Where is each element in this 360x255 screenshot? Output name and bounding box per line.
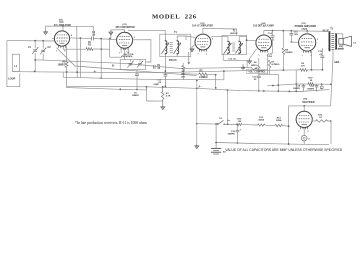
wire R7 bottom <box>259 68 279 74</box>
svg-text:470: 470 <box>301 65 305 68</box>
node rail to R10 <box>330 120 332 122</box>
label speaker <box>338 46 344 51</box>
wire V1 pin to R1 <box>66 46 68 60</box>
wire V2 grid top rail <box>128 30 165 34</box>
label S1 <box>219 118 222 120</box>
svg-text:1: 1 <box>301 55 302 57</box>
label T3 <box>330 28 333 30</box>
label C10 <box>157 79 162 84</box>
svg-text:2: 2 <box>307 131 308 133</box>
wire V5 cathode <box>311 51 313 70</box>
label V6 function <box>302 102 314 104</box>
wire R9 row <box>296 69 322 71</box>
T2 core <box>232 43 235 51</box>
output transformer T3 primary <box>329 32 330 51</box>
svg-text:45MA: 45MA <box>258 119 264 122</box>
tube V6 rectifier <box>296 111 312 129</box>
T2 primary winding <box>228 41 230 53</box>
wire V1 grid-cap to ground <box>46 26 54 29</box>
wire V2 pin to osc coil <box>120 49 122 53</box>
node rail C <box>119 86 297 93</box>
battery B1 <box>211 148 221 154</box>
label R6 <box>251 62 258 67</box>
wire R8 bottom <box>283 55 285 71</box>
label C19 <box>318 51 323 56</box>
loop antenna L1 outer <box>7 41 20 87</box>
resistor R11 <box>308 83 314 86</box>
label V3 <box>200 23 204 25</box>
label L1 <box>14 65 17 68</box>
T1 primary slug arrow <box>162 43 170 54</box>
label R1 <box>58 62 67 67</box>
svg-text:455 KC: 455 KC <box>169 59 177 62</box>
wire rail C lower stub <box>67 87 147 90</box>
label C13 <box>268 54 273 58</box>
wire rail A (loop bottom) <box>12 70 296 73</box>
svg-text:1: 1 <box>206 54 207 56</box>
label C16 <box>228 131 236 136</box>
wire row right <box>242 124 258 126</box>
variable capacitor C3 <box>127 61 133 68</box>
svg-text:.05MF: .05MF <box>153 84 160 86</box>
T2 secondary winding <box>239 41 241 53</box>
tube V4 <box>256 35 272 53</box>
svg-text:B−: B− <box>112 66 116 68</box>
wire rail C (A- bus) <box>67 86 330 91</box>
svg-text:50MFD: 50MFD <box>307 88 314 90</box>
svg-text:(V4): (V4) <box>261 22 265 25</box>
speaker LS1 <box>339 36 352 46</box>
wire V1 to R2 <box>63 48 86 49</box>
label C8 <box>132 92 140 97</box>
wire R5 drop <box>215 74 217 88</box>
wire grid cap down to V1 <box>62 26 64 31</box>
label C1 <box>28 46 32 49</box>
T1 wires <box>165 34 186 56</box>
resistor R5 <box>199 73 208 76</box>
wire R3 to ground <box>162 99 164 104</box>
svg-text:BLUE: BLUE <box>323 30 330 32</box>
label R5 <box>200 71 204 73</box>
wire T3 sec bottom <box>337 44 343 49</box>
oscillator tuning box <box>120 60 146 70</box>
label R5 value <box>199 77 208 79</box>
wire R8 top <box>282 31 284 48</box>
svg-text:R1: R1 <box>62 62 66 64</box>
label V2 <box>122 24 126 26</box>
node top rail d <box>306 30 308 32</box>
svg-text:.005: .005 <box>294 34 299 36</box>
wire vertical bus b <box>79 38 81 78</box>
wire C14 drop <box>272 31 274 36</box>
svg-text:10MEG: 10MEG <box>285 52 293 54</box>
label V5 <box>301 23 305 25</box>
wire C8 to rail <box>136 76 138 91</box>
svg-text:S1: S1 <box>219 118 222 120</box>
variable capacitor C2 <box>40 41 46 60</box>
svg-text:1: 1 <box>258 55 259 57</box>
svg-text:.05: .05 <box>253 79 257 81</box>
ground at V1 grid return <box>44 30 48 35</box>
wire V5 plate up <box>306 31 308 34</box>
label B1 <box>223 151 227 153</box>
wire switch to resistor <box>224 123 236 125</box>
label C4 <box>92 31 96 37</box>
wire V3 to ground <box>192 45 195 47</box>
svg-text:LOOP: LOOP <box>8 77 16 81</box>
resistor R8 <box>282 48 285 55</box>
label V3 function <box>192 25 213 28</box>
svg-text:C4: C4 <box>92 31 96 34</box>
resistor R1 <box>65 60 68 67</box>
T1 secondary winding <box>177 41 179 54</box>
wire C4 feed <box>46 26 94 36</box>
resistor R10 <box>316 120 328 123</box>
ground at V2 top <box>109 30 113 39</box>
svg-text:1K: 1K <box>319 117 322 119</box>
node top rail b <box>282 30 284 32</box>
svg-text:250: 250 <box>268 56 272 58</box>
wire C19 down <box>321 58 323 70</box>
svg-text:+: + <box>240 129 242 132</box>
wire screen drop <box>100 39 102 79</box>
svg-text:(V1): (V1) <box>59 19 63 21</box>
node V1 top rail <box>62 25 64 27</box>
label C2 <box>48 46 52 49</box>
ground at R3 <box>161 105 165 110</box>
svg-text:25MFD: 25MFD <box>228 134 236 136</box>
pin numbers V4 <box>258 40 273 57</box>
wire V4 top <box>263 31 265 36</box>
wire row end <box>283 125 289 128</box>
node PS left <box>288 125 290 145</box>
capacitor C14 <box>271 36 275 38</box>
wire audio right <box>277 74 279 92</box>
T2 secondary slug arrow <box>235 43 242 53</box>
node AVC left <box>34 59 36 61</box>
wire V4 to ground <box>250 49 257 59</box>
wire loop to V1 grid <box>7 40 55 42</box>
svg-text:VALUE OF ALL CAPACITORS ARE MM: VALUE OF ALL CAPACITORS ARE MMF UNLESS O… <box>225 148 343 152</box>
wire battery bus <box>216 143 329 145</box>
wire R3 net <box>147 86 164 101</box>
wire switch row <box>197 123 218 125</box>
label R3 <box>166 93 171 98</box>
capacitor C8 <box>135 74 139 76</box>
inductor L3 osc coil <box>122 56 132 57</box>
wire lamp to bus <box>303 141 305 144</box>
svg-text:POWER AMPLIFIER: POWER AMPLIFIER <box>295 25 317 28</box>
resistor R12 <box>237 123 242 125</box>
wire C19 drop <box>321 48 323 56</box>
svg-text:1U5 DET.&A.F.AMP.: 1U5 DET.&A.F.AMP. <box>253 25 274 28</box>
label C15 <box>294 32 299 37</box>
resistor R3 <box>161 92 164 100</box>
svg-text:LS: LS <box>353 42 356 44</box>
node top rail c <box>290 30 292 32</box>
pot wiper arrow <box>253 68 257 70</box>
svg-text:C2: C2 <box>48 46 52 49</box>
svg-text:A−: A− <box>198 86 202 89</box>
wire R1 to rail <box>66 68 68 88</box>
resistor R14 <box>275 124 283 126</box>
tube V1 <box>54 31 69 48</box>
capacitor C16 electrolytic <box>236 129 242 132</box>
wire L3 left <box>110 49 122 57</box>
svg-text:4: 4 <box>71 34 73 37</box>
wire C15 to V5 <box>284 41 299 44</box>
T1 primary winding <box>165 41 167 54</box>
wire pot bottom <box>258 72 260 77</box>
wire bias row left <box>267 84 296 86</box>
svg-text:1U4: 1U4 <box>59 21 64 24</box>
node R9 <box>311 69 324 71</box>
svg-text:7: 7 <box>197 54 198 56</box>
wire T2 bottom row <box>223 53 247 67</box>
svg-text:50MFD: 50MFD <box>293 88 300 90</box>
tube V2 <box>117 32 133 50</box>
node bias <box>321 83 323 85</box>
wire B+ top rail <box>264 30 330 33</box>
svg-text:C14: C14 <box>268 32 273 35</box>
capacitor C9 <box>154 65 156 69</box>
svg-text:1: 1 <box>56 51 57 53</box>
wire V1 plate to C4 <box>70 37 92 40</box>
label C12b <box>228 58 236 60</box>
pin numbers V6 <box>298 131 308 133</box>
svg-text:(3Q4): (3Q4) <box>302 27 308 30</box>
capacitor C17 electrolytic <box>315 84 319 92</box>
pilot lamp PL1 <box>301 135 307 141</box>
svg-text:A&B−: A&B− <box>334 61 341 64</box>
wire AVC drop w arrow <box>188 52 191 65</box>
label B minus <box>93 66 202 89</box>
T2 primary slug arrow <box>224 43 231 53</box>
label R7 <box>271 62 279 67</box>
capacitor C11 <box>241 64 245 71</box>
label bypass <box>153 84 160 86</box>
label PL1 <box>308 138 310 140</box>
svg-text:3: 3 <box>317 39 318 41</box>
label C14 <box>268 32 273 35</box>
wire V2 top to ground <box>111 30 125 33</box>
node T2 out <box>246 39 248 41</box>
svg-text:3: 3 <box>134 37 135 39</box>
svg-text:1U4 I.F. AMPLIFIER: 1U4 I.F. AMPLIFIER <box>192 25 213 28</box>
wire R2 to osc section <box>93 38 110 49</box>
label T1 <box>174 31 177 34</box>
svg-text:.05: .05 <box>157 68 161 70</box>
svg-text:T1: T1 <box>174 31 177 34</box>
wire V6 to lamp <box>303 128 305 136</box>
wire V1 cathode diagonal <box>56 48 196 76</box>
label R8 <box>285 49 293 54</box>
label LS1 <box>353 42 356 44</box>
label V1 type <box>59 21 64 24</box>
wire rail drop to row <box>227 90 229 124</box>
label C12 <box>252 76 257 81</box>
variable capacitor C1 <box>32 41 38 72</box>
label VOL CONTROL <box>247 69 268 73</box>
svg-text:MODEL 226: MODEL 226 <box>152 13 197 20</box>
wire R10 left <box>312 119 315 121</box>
wire V1 grid stub <box>52 38 55 40</box>
pin numbers V2 <box>119 37 135 54</box>
label R2 <box>88 42 92 46</box>
label A BAT <box>227 119 231 122</box>
wire rail B riser <box>196 70 225 81</box>
wire battery drop <box>215 124 217 148</box>
ground chassis at battery <box>195 144 199 149</box>
node on top wire <box>34 40 44 42</box>
T1 core <box>170 43 173 53</box>
wire chassis drop <box>196 123 198 144</box>
svg-text:*In late production receivers,: *In late production receivers, R-11 is 1… <box>75 121 148 126</box>
pin numbers V1 <box>56 34 73 52</box>
wire T3 top <box>329 30 331 33</box>
label V4 <box>261 22 265 25</box>
tube V3 <box>195 34 211 52</box>
wire V3 top rail <box>203 28 237 35</box>
resistor R13 <box>258 124 266 126</box>
svg-text:5: 5 <box>64 51 65 53</box>
capacitor C15 <box>289 31 293 42</box>
note late production <box>75 121 148 126</box>
ground at detector <box>248 59 252 64</box>
label R11 <box>308 78 313 83</box>
svg-text:6: 6 <box>273 40 274 42</box>
label R9 <box>301 63 305 68</box>
label T1 frequency <box>169 59 177 62</box>
label V5 type <box>302 27 308 30</box>
label C18 <box>293 85 301 89</box>
wire T1 primary return <box>165 57 167 72</box>
tube V5 <box>299 34 316 53</box>
IF transformer T1 box <box>160 34 191 56</box>
svg-text:2: 2 <box>308 138 310 140</box>
wire AVC bus <box>35 60 244 69</box>
node PS top <box>303 105 305 107</box>
wire V2 plate to T1 <box>133 40 151 62</box>
node battery top <box>215 123 228 125</box>
wire C4 to V2 <box>94 39 117 40</box>
svg-text:1R5 CONVERTER: 1R5 CONVERTER <box>115 27 135 29</box>
label V1 function <box>54 24 71 27</box>
node plate wire <box>80 37 111 40</box>
label AB- <box>334 61 341 64</box>
label LOOP <box>8 77 16 81</box>
resistor R7 <box>268 60 270 68</box>
svg-text:RECTIFIER: RECTIFIER <box>302 102 314 104</box>
wire T1 to V3 <box>186 36 195 37</box>
capacitor C10 <box>164 71 168 86</box>
wire C13 link <box>266 54 268 74</box>
label V5 function <box>295 25 317 28</box>
T2 wires <box>211 37 256 54</box>
title MODEL 226 <box>152 13 197 20</box>
switch S1 <box>217 120 225 125</box>
label C17 <box>307 86 314 90</box>
svg-text:(V5): (V5) <box>301 23 305 25</box>
wire C16 bottom <box>237 132 239 144</box>
svg-text:1MEG: 1MEG <box>251 65 257 67</box>
label V6 <box>303 99 307 101</box>
wire R5 right <box>208 73 216 76</box>
output transformer T3 secondary <box>335 34 336 50</box>
resistor R6 volume pot <box>258 65 260 72</box>
resistor R4 <box>182 65 185 72</box>
capacitor C4 <box>92 37 94 41</box>
label R10 <box>318 114 323 119</box>
polarity circle C17 <box>320 86 323 89</box>
label R4 <box>181 73 185 79</box>
svg-text:(V6): (V6) <box>303 99 307 101</box>
wire switch feed <box>196 81 198 124</box>
wire osc to C8 <box>136 70 138 75</box>
wire bias right <box>321 84 323 86</box>
note capacitor values <box>225 148 343 152</box>
wire PS top <box>289 106 331 144</box>
svg-text:C12 .05: C12 .05 <box>228 58 236 60</box>
node rail A <box>34 71 78 74</box>
capacitor C12 <box>257 76 261 78</box>
wire row mid <box>265 124 275 126</box>
T2 bottom nodes <box>227 52 240 54</box>
svg-text:455 KC: 455 KC <box>230 32 238 35</box>
svg-text:L1: L1 <box>14 65 17 68</box>
svg-text:1K: 1K <box>310 80 313 82</box>
wire R10 right <box>328 121 332 144</box>
node top rail a <box>272 30 274 32</box>
loop antenna L1 inner <box>12 54 19 71</box>
svg-text:4.7K: 4.7K <box>166 95 171 98</box>
label V4 function <box>253 25 274 28</box>
wire C14 down <box>272 37 274 53</box>
wire C12 to rail <box>258 78 260 92</box>
wire rail B drop <box>62 72 64 77</box>
capacitor C18 electrolytic <box>302 84 306 92</box>
svg-text:4.7MEG: 4.7MEG <box>271 63 279 66</box>
label T2 <box>230 31 238 35</box>
svg-text:.05: .05 <box>92 35 96 37</box>
wire R4 to rail <box>183 70 185 79</box>
label R12 <box>237 119 242 123</box>
svg-text:25MA: 25MA <box>276 119 282 122</box>
wire AB rail <box>331 50 333 106</box>
resistor R2 <box>86 48 93 51</box>
label BLUE <box>323 30 330 32</box>
svg-text:1K: 1K <box>88 42 91 44</box>
label L3 <box>123 52 134 56</box>
label V1 <box>59 19 63 21</box>
wire T3 to speaker <box>337 34 343 39</box>
wire bias row <box>295 83 331 85</box>
wire rail B <box>63 77 224 80</box>
T1 secondary slug arrow <box>174 43 182 54</box>
variable capacitor C4 <box>137 61 143 68</box>
svg-text:10MEG: 10MEG <box>58 65 66 67</box>
svg-text:.05MFD: .05MFD <box>132 95 140 97</box>
wire left drop <box>295 70 297 92</box>
resistor R9 <box>300 69 308 72</box>
svg-text:7: 7 <box>298 131 299 133</box>
svg-text:2.2MEG: 2.2MEG <box>199 77 208 79</box>
svg-text:C1: C1 <box>28 46 32 49</box>
svg-text:T3: T3 <box>330 28 333 30</box>
pin numbers V3 <box>197 39 212 56</box>
label V2 function <box>115 27 135 29</box>
svg-text:(V2): (V2) <box>122 24 126 26</box>
